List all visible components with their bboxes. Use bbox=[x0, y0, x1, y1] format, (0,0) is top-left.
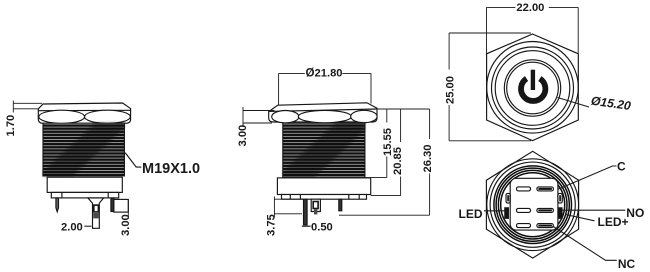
right pin bar bbox=[111, 198, 114, 212]
needle pin bbox=[56, 198, 59, 212]
hexagon front bbox=[487, 34, 579, 141]
slot row1 right (filled) bbox=[537, 187, 554, 191]
head facet top line bbox=[269, 109, 377, 111]
svg-text:NC: NC bbox=[618, 257, 636, 271]
left keyway bbox=[506, 193, 510, 203]
svg-text:25.00: 25.00 bbox=[445, 76, 457, 104]
bottom step strip bbox=[51, 192, 118, 198]
thread shading band bbox=[43, 123, 124, 177]
dimension Ø21.80 bbox=[279, 73, 371, 104]
slot row1 left bbox=[517, 187, 531, 191]
rear ring cluster 3 bbox=[498, 170, 567, 239]
center pin dark stem bbox=[314, 209, 317, 214]
pin housing square bbox=[510, 178, 558, 230]
svg-text:0.50: 0.50 bbox=[311, 221, 333, 233]
leader + label NO bbox=[563, 209, 626, 211]
rear ring cluster 4 bbox=[501, 173, 565, 237]
right block bbox=[114, 199, 128, 212]
slot row2 right (filled) bbox=[537, 208, 554, 212]
strip division lines bbox=[290, 195, 359, 200]
left keyway pin bbox=[507, 195, 509, 201]
center pin hole bbox=[313, 202, 318, 209]
dimension Ø15.20 bbox=[558, 98, 590, 108]
LED- pin bar left bbox=[505, 208, 509, 219]
leader + label NC bbox=[553, 226, 617, 260]
strip division lines bbox=[62, 192, 108, 198]
button face circle bbox=[504, 60, 560, 116]
bezel inner circle bbox=[495, 51, 570, 126]
svg-text:2.00: 2.00 bbox=[61, 222, 83, 234]
svg-text:3.75: 3.75 bbox=[266, 214, 278, 236]
facet ellipse center bbox=[298, 110, 351, 122]
svg-text:3.00: 3.00 bbox=[237, 125, 249, 147]
svg-text:3.00: 3.00 bbox=[120, 214, 132, 236]
threads bbox=[283, 123, 365, 178]
dimension 26.30 bbox=[339, 109, 430, 215]
slot row3 left bbox=[517, 224, 531, 228]
dimension 20.85 bbox=[371, 109, 401, 196]
dimension 1.70 bbox=[13, 101, 42, 113]
svg-text:LED: LED bbox=[459, 207, 483, 221]
rear ring cluster 2 bbox=[496, 168, 569, 241]
threads bbox=[43, 123, 124, 177]
left long pin bbox=[304, 199, 308, 225]
label M19X1.0 bbox=[125, 153, 141, 167]
right keyway bbox=[558, 193, 562, 203]
dimension 3.75 bbox=[274, 197, 303, 218]
base bbox=[47, 177, 122, 192]
center pin hole bbox=[94, 205, 99, 212]
svg-text:C: C bbox=[617, 160, 626, 174]
rear ring cluster 1 bbox=[494, 166, 572, 244]
right pin bbox=[339, 199, 342, 211]
center pin shoulder bbox=[88, 198, 104, 228]
head facet ellipse right bbox=[85, 110, 131, 123]
leader + label LED- bbox=[484, 210, 505, 212]
svg-text:22.00: 22.00 bbox=[516, 2, 544, 14]
facet ellipse right bbox=[351, 110, 377, 122]
slot row2 left bbox=[517, 208, 531, 212]
button face inner circle bbox=[507, 62, 559, 114]
head silhouette bbox=[38, 103, 130, 123]
right keyway pin bbox=[559, 195, 561, 201]
dimension 22.00 bbox=[487, 7, 579, 53]
thread shading band bbox=[283, 123, 365, 178]
slot row3 right (filled) bbox=[537, 224, 554, 228]
head facet top line bbox=[38, 109, 130, 111]
leader + label C bbox=[558, 166, 617, 190]
bottom step strip bbox=[282, 195, 367, 200]
svg-text:26.30: 26.30 bbox=[422, 145, 434, 173]
svg-text:LED+: LED+ bbox=[598, 215, 629, 229]
center pin bbox=[311, 199, 320, 211]
dimension 15.55 bbox=[365, 109, 387, 178]
dimension 25.00 bbox=[449, 33, 531, 141]
facet ellipse left bbox=[272, 111, 299, 123]
leader + label LED+ bbox=[566, 215, 595, 221]
power symbol bbox=[521, 70, 545, 101]
svg-text:M19X1.0: M19X1.0 bbox=[142, 161, 200, 177]
head facet ellipse left bbox=[39, 110, 85, 123]
inscribed circle rear bbox=[487, 159, 579, 251]
svg-text:NO: NO bbox=[626, 206, 644, 220]
dimension 3.00 (middle fig) bbox=[243, 107, 274, 127]
bezel outer circle bbox=[492, 47, 574, 129]
center pin dark band bbox=[93, 213, 99, 218]
base bbox=[277, 178, 370, 195]
hexagon rear bbox=[486, 151, 578, 258]
svg-text:Ø21.80: Ø21.80 bbox=[306, 67, 343, 80]
rear bezel circle bbox=[490, 162, 575, 247]
right stacked dims top reference line bbox=[377, 108, 430, 110]
dimension 0.50 bbox=[302, 225, 311, 227]
svg-text:1.70: 1.70 bbox=[5, 115, 17, 137]
svg-text:20.85: 20.85 bbox=[392, 147, 404, 175]
inscribed circle front bbox=[487, 42, 579, 134]
head silhouette bbox=[269, 103, 377, 122]
LED+ pin bar right bbox=[558, 208, 562, 219]
dimension 3.00 (left fig) bbox=[127, 199, 129, 218]
